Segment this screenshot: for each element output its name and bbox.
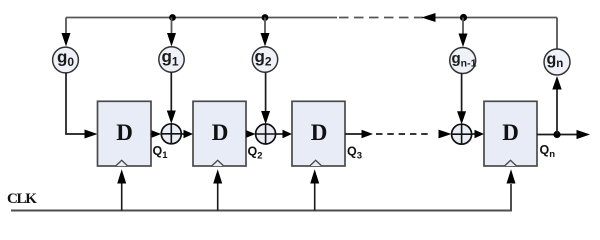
wire: drop from top wire to g1 xyxy=(171,18,173,35)
arrowhead: into XOR1 left xyxy=(152,130,162,138)
wire: FF4 Q to output node xyxy=(537,134,577,136)
svg-text:D: D xyxy=(502,120,519,145)
xor gate X3 xyxy=(452,124,472,144)
wire: FF2 Q to XOR2 xyxy=(246,133,248,135)
arrowhead: clock into FF4 xyxy=(507,169,516,183)
wire: g2 output down to XOR2 xyxy=(265,72,267,111)
arrowhead: feedback direction (points left) xyxy=(422,13,436,22)
node: junction above g1 xyxy=(169,14,176,21)
tap coefficient g0 xyxy=(53,47,79,73)
wire: XOR3 to FF4 xyxy=(472,133,475,135)
clock wedge FF4 xyxy=(505,160,517,166)
arrowhead: clock into FF2 xyxy=(213,169,222,183)
tap coefficient gn xyxy=(544,49,570,75)
tap coefficient g1 xyxy=(159,47,184,72)
clock wedge FF3 xyxy=(310,160,322,166)
arrowhead: serial output xyxy=(577,130,591,139)
arrowhead: into FF4 D input xyxy=(475,130,485,138)
flip-flop D2 xyxy=(193,101,246,166)
tap coefficient g2 xyxy=(252,47,277,72)
arrowhead: into FF1 D input xyxy=(85,130,98,139)
wire: FF1 Q to XOR1 xyxy=(151,133,153,135)
wire: top feedback dashed section xyxy=(339,17,423,19)
node: junction above g2 xyxy=(262,14,269,21)
arrowhead: into gn-1 xyxy=(459,34,468,48)
arrowhead: into g1 xyxy=(167,33,176,47)
wire: gn-1 output down to XOR3 xyxy=(461,74,463,112)
arrowhead: into XOR2 left xyxy=(246,130,255,138)
arrowhead: into FF3 D input xyxy=(283,130,293,138)
flip-flop D1 xyxy=(98,101,152,166)
wire: output node up to gn xyxy=(556,89,558,135)
wire: clock stub FF1 xyxy=(121,183,123,211)
arrowhead: into XOR3 top xyxy=(457,111,466,124)
arrowhead: clock into FF3 xyxy=(310,169,319,183)
wire: clock stub FF2 xyxy=(217,183,219,211)
arrowhead: FF3 output direction xyxy=(362,130,374,138)
wire: FF3 Q output solid xyxy=(345,133,362,135)
wire: XOR1 to FF2 xyxy=(181,133,184,135)
node: junction above gn-1 xyxy=(460,14,467,21)
wire: drop from top wire to g2 xyxy=(264,18,266,35)
clock wedge FF2 xyxy=(212,160,224,166)
node: Qn output junction xyxy=(553,131,560,138)
wire: top feedback horizontal solid right section xyxy=(434,17,557,19)
arrowhead: into XOR1 top xyxy=(167,111,176,124)
wire: XOR2 to FF3 xyxy=(276,133,283,135)
svg-text:D: D xyxy=(116,120,133,145)
flip-flop D3 xyxy=(292,101,345,166)
flip-flop D4 xyxy=(484,101,537,166)
svg-text:CLK: CLK xyxy=(7,191,37,207)
arrowhead: into FF2 D input xyxy=(184,130,194,138)
arrowhead: into XOR2 top xyxy=(261,111,270,124)
svg-text:D: D xyxy=(311,120,328,145)
svg-text:D: D xyxy=(212,120,229,145)
wire: dashed chain segment xyxy=(376,133,431,135)
wire: riser from gn top to top wire xyxy=(556,18,558,50)
arrowhead: up into gn xyxy=(552,76,561,90)
wire: CLK distribution line xyxy=(11,184,511,211)
arrowhead: clock into FF1 xyxy=(117,169,126,183)
clock wedge FF1 xyxy=(116,160,128,166)
wire: g1 output down to XOR1 xyxy=(170,72,172,111)
arrowhead: into XOR3 left xyxy=(439,130,452,139)
xor gate X1 xyxy=(161,124,181,144)
tap coefficient gn-1 xyxy=(450,48,477,74)
wire: drop from top wire to g0 xyxy=(65,18,67,35)
wire: top feedback horizontal solid left section xyxy=(66,17,337,19)
arrowhead: into g2 xyxy=(261,33,270,47)
arrowhead: into g0 xyxy=(62,33,71,47)
wire: clock stub FF3 xyxy=(314,183,316,211)
xor gate X2 xyxy=(256,124,276,144)
wire: drop from top wire to gn-1 xyxy=(462,18,464,35)
wire: g0 output down and right to FF1 input xyxy=(66,73,85,134)
